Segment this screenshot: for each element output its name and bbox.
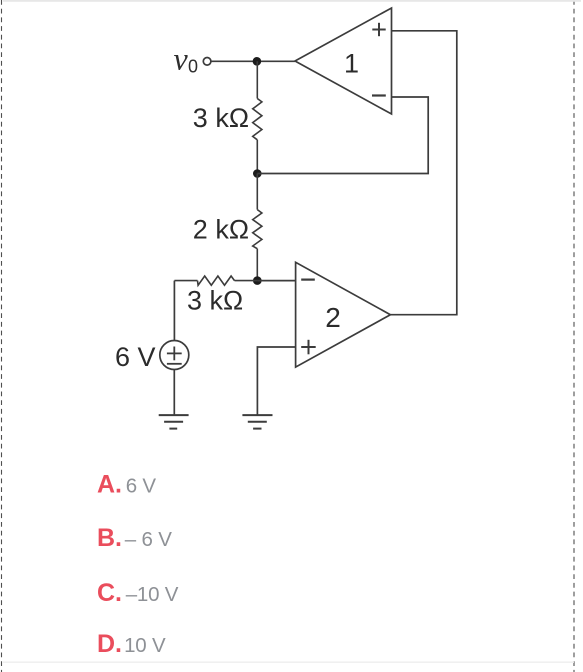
wire R3 to source V1 bbox=[173, 281, 175, 341]
node v0 output terminal bbox=[174, 41, 211, 77]
ground (below U2 non-inverting input) bbox=[242, 415, 272, 429]
svg-text:– 6 V: – 6 V bbox=[125, 528, 172, 551]
svg-text:–10 V: –10 V bbox=[126, 583, 179, 606]
svg-text:2: 2 bbox=[325, 302, 341, 333]
wire v0 terminal to op-amp U1 output bbox=[211, 60, 295, 62]
op-amp U2 bbox=[296, 262, 391, 367]
resistor R3 3 kOhm (horizontal) bbox=[174, 276, 257, 285]
junction node A bbox=[253, 57, 262, 66]
svg-text:C.: C. bbox=[97, 579, 122, 607]
wire U2 output to U1 non-inverting input bbox=[390, 31, 456, 315]
answer option D bbox=[97, 630, 166, 658]
answer option B bbox=[97, 524, 172, 552]
svg-text:3 kΩ: 3 kΩ bbox=[187, 286, 243, 316]
svg-text:D.: D. bbox=[97, 630, 122, 658]
svg-text:B.: B. bbox=[97, 524, 122, 552]
ground (below source V1) bbox=[159, 415, 189, 429]
svg-text:10 V: 10 V bbox=[124, 634, 166, 657]
svg-text:A.: A. bbox=[97, 470, 122, 498]
svg-text:1: 1 bbox=[344, 49, 359, 79]
resistor R2 2 kOhm (vertical) bbox=[253, 174, 262, 281]
wire node C to U2 inverting input bbox=[257, 280, 295, 282]
svg-text:2 kΩ: 2 kΩ bbox=[193, 214, 249, 244]
op-amp U1 bbox=[295, 8, 392, 114]
answer option A bbox=[97, 470, 156, 498]
resistor R1 3 kOhm (vertical) bbox=[253, 61, 262, 173]
source V1 6 V bbox=[160, 341, 189, 370]
svg-text:6 V: 6 V bbox=[115, 342, 156, 372]
svg-text:ν: ν bbox=[174, 41, 189, 77]
wire source V1 to ground bbox=[173, 370, 175, 416]
wire U2 non-inverting input to ground bbox=[257, 347, 295, 415]
junction node C bbox=[253, 276, 262, 285]
svg-text:3 kΩ: 3 kΩ bbox=[193, 103, 249, 133]
wire node B to U1 inverting input bbox=[257, 97, 428, 174]
answer option C bbox=[97, 579, 179, 607]
svg-text:6 V: 6 V bbox=[126, 474, 157, 497]
junction node B bbox=[253, 169, 262, 178]
svg-text:0: 0 bbox=[188, 57, 198, 77]
